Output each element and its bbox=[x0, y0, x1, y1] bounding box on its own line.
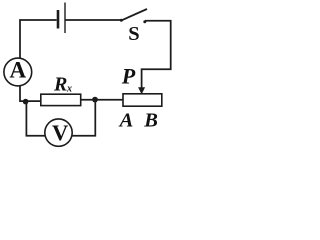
svg-text:A: A bbox=[118, 110, 134, 132]
svg-text:S: S bbox=[128, 23, 139, 45]
svg-text:x: x bbox=[66, 84, 72, 95]
svg-text:B: B bbox=[143, 110, 158, 132]
svg-text:R: R bbox=[53, 74, 67, 96]
svg-text:A: A bbox=[10, 57, 27, 82]
svg-text:P: P bbox=[121, 64, 136, 89]
svg-text:V: V bbox=[52, 120, 68, 145]
